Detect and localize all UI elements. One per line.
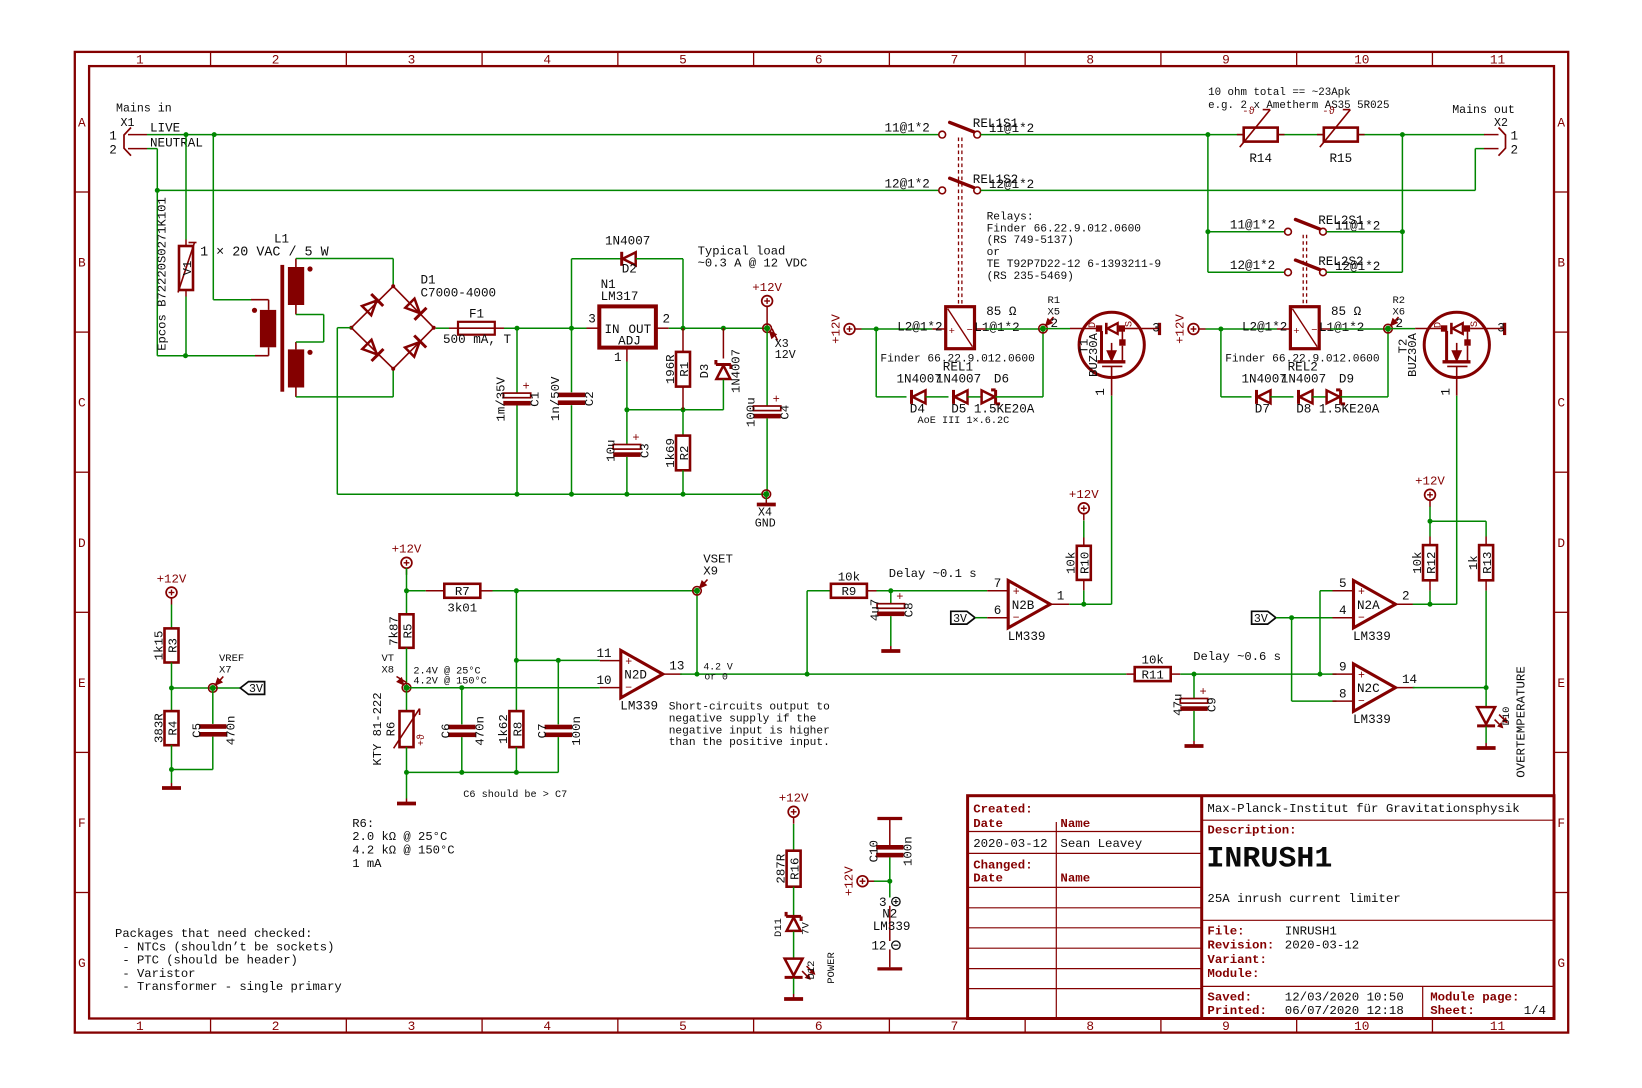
label 12@1*2 REL2 right <box>1335 260 1380 274</box>
svg-text:X1: X1 <box>121 117 135 130</box>
svg-text:-ϑ: -ϑ <box>1322 106 1335 118</box>
wire 3V to N2B <box>975 617 987 619</box>
svg-text:4: 4 <box>543 53 551 68</box>
svg-text:Variant:: Variant: <box>1207 953 1267 967</box>
title block <box>968 796 1554 1019</box>
wire VREF row <box>172 687 241 689</box>
label REL1S2 <box>973 173 1018 187</box>
svg-text:6: 6 <box>815 53 823 68</box>
svg-text:R15: R15 <box>1329 152 1352 166</box>
svg-text:G: G <box>1557 956 1565 971</box>
svg-text:D7: D7 <box>1255 403 1270 417</box>
note relays part numbers <box>987 211 1162 283</box>
svg-text:Epcos B72220S0271K101: Epcos B72220S0271K101 <box>156 197 170 351</box>
junction C9 top <box>1192 672 1197 677</box>
resistor R5 <box>387 614 415 687</box>
svg-text:D12: D12 <box>806 961 818 980</box>
note R6 characteristics <box>352 817 454 871</box>
op-amp N2D <box>597 647 685 714</box>
svg-text:R10: R10 <box>1079 552 1093 574</box>
note delay 0.1s <box>889 567 977 581</box>
svg-text:+ϑ: +ϑ <box>416 734 428 746</box>
svg-text:+12V: +12V <box>392 543 422 557</box>
wire LIVE rail <box>147 134 939 136</box>
svg-text:470n: 470n <box>224 716 238 746</box>
transistor T2 BUZ30A <box>1397 312 1505 395</box>
svg-text:R6:: R6: <box>352 817 374 831</box>
svg-text:3: 3 <box>408 53 416 68</box>
resistor R3 <box>152 605 180 689</box>
svg-text:ADJ: ADJ <box>618 334 641 348</box>
label OVERTEMPERATURE <box>1515 666 1529 778</box>
power +12V R12 <box>1415 475 1445 507</box>
wire 12@1*2 row <box>157 189 938 191</box>
svg-text:D9: D9 <box>1339 373 1354 387</box>
svg-text:e.g. 2 x Ametherm AS35 5R025: e.g. 2 x Ametherm AS35 5R025 <box>1208 100 1389 112</box>
junction R12 top <box>1428 519 1433 524</box>
relay coil REL2 <box>1277 307 1330 349</box>
svg-text:4: 4 <box>1339 604 1347 618</box>
junction N2A feed <box>1318 672 1323 677</box>
svg-text:1/4: 1/4 <box>1524 1004 1546 1018</box>
wire N2B output <box>1069 603 1111 605</box>
capacitor C6 <box>439 688 487 773</box>
svg-text:R5: R5 <box>401 624 415 639</box>
power +12V REL1 <box>829 314 861 344</box>
svg-text:3V: 3V <box>953 613 967 626</box>
svg-text:10: 10 <box>597 674 612 688</box>
wire R11 to N2C <box>1180 673 1336 675</box>
junction C1 <box>515 326 520 331</box>
svg-text:+: + <box>896 590 903 604</box>
switch REL1S2 <box>939 178 981 194</box>
power +12V N2 <box>842 866 874 896</box>
svg-text:OVERTEMPERATURE: OVERTEMPERATURE <box>1515 666 1529 778</box>
svg-text:LM339: LM339 <box>1353 630 1391 644</box>
svg-text:LM339: LM339 <box>873 920 911 934</box>
relay coil REL1 <box>932 307 985 349</box>
wire diode row up <box>1042 329 1044 397</box>
node X8 VT <box>382 653 411 692</box>
ground R4 <box>162 770 181 789</box>
capacitor C1 <box>495 328 543 494</box>
svg-text:E: E <box>78 676 86 691</box>
wire +12V to coil <box>862 328 933 330</box>
svg-text:+: + <box>1358 669 1365 682</box>
junction R7 left <box>404 588 409 593</box>
label temp coefficients <box>413 665 486 687</box>
svg-text:Packages that need checked:: Packages that need checked: <box>115 927 312 941</box>
label NEUTRAL <box>150 136 203 150</box>
svg-text:11: 11 <box>1490 53 1506 68</box>
wire 3V to N2C <box>1292 618 1337 701</box>
svg-text:1m/35V: 1m/35V <box>495 376 509 421</box>
capacitor C5 <box>172 688 239 770</box>
svg-text:8: 8 <box>1339 687 1347 701</box>
junction REL2S1 left <box>1205 229 1210 234</box>
svg-text:1: 1 <box>109 129 117 143</box>
label LIVE <box>150 122 180 136</box>
svg-text:LIVE: LIVE <box>150 122 180 136</box>
svg-text:10 ohm total == ~23Apk: 10 ohm total == ~23Apk <box>1208 87 1351 99</box>
labels diodes REL2 <box>1242 373 1380 417</box>
svg-text:D5 1.5KE20A: D5 1.5KE20A <box>951 403 1035 417</box>
resistor R13 <box>1467 545 1495 688</box>
svg-text:+: + <box>632 431 639 445</box>
svg-text:F: F <box>1557 816 1565 831</box>
svg-text:Sheet:: Sheet: <box>1430 1004 1475 1018</box>
svg-text:1: 1 <box>1057 590 1065 604</box>
svg-text:14: 14 <box>1402 673 1417 687</box>
svg-text:D: D <box>1557 536 1565 551</box>
op-amp N2A <box>1333 577 1415 644</box>
svg-text:10k: 10k <box>1142 654 1164 668</box>
svg-text:Mains out: Mains out <box>1452 104 1515 117</box>
svg-text:E: E <box>1557 676 1565 691</box>
junction REL2 right top <box>1400 132 1405 137</box>
junction rail C2 <box>569 492 574 497</box>
resistor R11 <box>1126 654 1180 683</box>
svg-text:R2: R2 <box>1393 295 1406 307</box>
svg-text:N2D: N2D <box>624 669 647 683</box>
svg-text:287R: 287R <box>774 853 788 883</box>
svg-text:VREF: VREF <box>219 653 244 665</box>
svg-text:D: D <box>1432 322 1444 328</box>
svg-text:7: 7 <box>994 577 1002 591</box>
svg-text:R13: R13 <box>1481 552 1495 574</box>
svg-text:Printed:: Printed: <box>1207 1004 1267 1018</box>
junction rail R2 <box>681 492 686 497</box>
label L2@1*2 REL1 <box>897 321 942 335</box>
svg-text:C: C <box>78 396 86 411</box>
wire secondary bottom <box>296 369 393 397</box>
capacitor C7 <box>536 660 584 772</box>
svg-text:500 mA, T: 500 mA, T <box>443 333 511 347</box>
wire +12V to coil REL2 <box>1206 328 1278 330</box>
note typical load <box>698 245 808 271</box>
svg-text:470n: 470n <box>473 716 487 746</box>
thermistor R6 <box>371 688 428 773</box>
svg-text:Date: Date <box>973 872 1003 886</box>
label Finder REL2 <box>1225 353 1380 365</box>
wire 4.2V to R11 <box>807 673 1126 675</box>
svg-text:G: G <box>78 956 86 971</box>
svg-text:10k: 10k <box>838 570 860 584</box>
svg-text:- PTC (should be header): - PTC (should be header) <box>115 954 298 968</box>
wire X6 to gate <box>1391 328 1415 330</box>
note packages checklist <box>115 927 342 994</box>
svg-text:A: A <box>1557 115 1565 130</box>
wire bridge left down <box>337 328 351 495</box>
labels diodes REL1 <box>897 373 1035 428</box>
svg-text:F1: F1 <box>469 308 484 322</box>
junction D3 top <box>721 326 726 331</box>
svg-text:(RS 235-5469): (RS 235-5469) <box>987 271 1074 283</box>
svg-text:2: 2 <box>272 53 280 68</box>
diode D4 <box>912 390 949 404</box>
wire X5 to gate <box>1046 328 1070 330</box>
svg-text:4.2 kΩ @ 150°C: 4.2 kΩ @ 150°C <box>352 844 454 858</box>
resistor R4 <box>152 688 180 770</box>
svg-text:+: + <box>773 393 780 407</box>
wire REL2S2 left <box>1208 271 1285 273</box>
svg-text:11@1*2: 11@1*2 <box>1230 218 1275 232</box>
capacitor C10 with terminal <box>867 819 915 882</box>
svg-text:R14: R14 <box>1249 152 1272 166</box>
svg-text:C7000-4000: C7000-4000 <box>421 287 497 301</box>
junction C2/D2 <box>569 326 574 331</box>
connector X2 Mains out <box>1452 104 1518 157</box>
ground C9 <box>1185 741 1204 747</box>
thermistor R15 <box>1317 106 1365 166</box>
capacitor C4 <box>745 328 793 494</box>
svg-text:3k01: 3k01 <box>447 601 477 615</box>
wire NEUTRAL <box>147 149 157 356</box>
tvs diode D9 <box>1327 390 1388 404</box>
svg-text:+12V: +12V <box>157 572 187 586</box>
svg-text:Saved:: Saved: <box>1207 990 1252 1004</box>
led D12 <box>785 952 838 994</box>
label L1@1*2 REL1 <box>974 321 1019 335</box>
wire REL2S1 right <box>1326 231 1402 233</box>
node X5 <box>1039 295 1060 333</box>
wire X3 node <box>766 313 768 328</box>
svg-text:3V: 3V <box>249 683 263 696</box>
svg-text:1: 1 <box>1094 388 1108 396</box>
svg-text:C8: C8 <box>902 602 916 617</box>
svg-text:1k: 1k <box>1467 555 1481 570</box>
label REL2S2 <box>1318 255 1363 269</box>
power +12V REL2 <box>1173 314 1205 344</box>
svg-text:File:: File: <box>1207 925 1244 939</box>
svg-text:1: 1 <box>614 351 622 365</box>
ground D12 <box>784 994 803 1000</box>
svg-text:−: − <box>1311 325 1317 337</box>
svg-text:10k: 10k <box>1065 552 1079 574</box>
svg-text:C6: C6 <box>439 723 453 738</box>
svg-text:1N4007: 1N4007 <box>730 349 744 393</box>
wire X8 row <box>407 687 600 689</box>
svg-text:S: S <box>1124 321 1136 327</box>
wire REL2 diode branch <box>1221 329 1252 397</box>
svg-text:R8: R8 <box>511 722 525 737</box>
svg-text:C: C <box>1557 396 1565 411</box>
svg-text:N2C: N2C <box>1357 682 1380 696</box>
junction VSET output <box>695 672 700 677</box>
diode D5 <box>954 390 982 404</box>
svg-text:X7: X7 <box>219 665 232 677</box>
svg-text:2.0 kΩ @ 25°C: 2.0 kΩ @ 25°C <box>352 830 447 844</box>
svg-text:F: F <box>78 816 86 831</box>
svg-text:D: D <box>78 536 86 551</box>
svg-text:2: 2 <box>1402 590 1410 604</box>
svg-text:7V: 7V <box>801 922 813 935</box>
svg-text:3: 3 <box>1152 321 1160 335</box>
transistor T1 BUZ30A <box>1070 312 1160 395</box>
svg-text:12@1*2: 12@1*2 <box>885 177 930 191</box>
diode D2 <box>572 235 684 329</box>
svg-text:Module page:: Module page: <box>1430 990 1519 1004</box>
diode D7 <box>1257 390 1294 404</box>
junction C7 top <box>556 658 561 663</box>
svg-text:BUZ30A: BUZ30A <box>1087 332 1101 377</box>
junction rail R8 <box>514 770 519 775</box>
svg-text:+12V: +12V <box>842 866 856 896</box>
svg-text:N2B: N2B <box>1012 599 1035 613</box>
global label 3V at N2A <box>1252 611 1276 626</box>
svg-text:12: 12 <box>871 940 886 954</box>
junction R9 takeoff <box>805 672 810 677</box>
svg-text:−: − <box>1358 612 1365 625</box>
svg-text:5: 5 <box>679 1019 687 1034</box>
wire N2D plus feed <box>516 659 599 661</box>
resistor R10 <box>1065 521 1093 605</box>
wire ground rail <box>337 493 766 495</box>
svg-text:Description:: Description: <box>1207 823 1296 837</box>
svg-text:negative supply if the: negative supply if the <box>669 713 817 725</box>
junction R1 top <box>681 326 686 331</box>
wire REL1S2 out <box>981 189 1476 191</box>
svg-text:11: 11 <box>1490 1019 1506 1034</box>
svg-text:06/07/2020 12:18: 06/07/2020 12:18 <box>1285 1004 1404 1018</box>
label Finder REL1 <box>880 353 1035 365</box>
svg-text:−: − <box>1358 695 1365 708</box>
svg-text:8: 8 <box>1086 53 1094 68</box>
svg-text:NEUTRAL: NEUTRAL <box>150 136 203 150</box>
svg-text:1: 1 <box>1439 388 1453 396</box>
junction REL2 left top <box>1205 132 1210 137</box>
svg-text:or 0: or 0 <box>704 672 728 683</box>
svg-text:Changed:: Changed: <box>973 858 1032 872</box>
svg-text:3: 3 <box>588 313 596 327</box>
svg-text:C4: C4 <box>779 405 793 420</box>
svg-text:+: + <box>1013 586 1020 599</box>
svg-text:X2: X2 <box>1494 117 1508 130</box>
svg-text:B: B <box>1557 256 1565 271</box>
connector X1 Mains in <box>109 103 171 158</box>
ground D10 <box>1477 743 1496 749</box>
label 11@1*2 left <box>885 121 930 135</box>
svg-text:B: B <box>78 256 86 271</box>
svg-text:196R: 196R <box>664 354 678 384</box>
svg-text:7k87: 7k87 <box>387 616 401 646</box>
switch REL1S1 <box>939 122 981 138</box>
svg-text:1n/50V: 1n/50V <box>549 376 563 421</box>
wire secondary centertap jog <box>296 315 324 343</box>
junction rail C3 <box>624 492 629 497</box>
svg-text:LM317: LM317 <box>601 290 639 304</box>
svg-text:2: 2 <box>1511 143 1519 157</box>
power +12V R3 <box>157 572 187 604</box>
svg-text:+12V: +12V <box>752 281 782 295</box>
svg-text:Name: Name <box>1060 817 1090 831</box>
svg-text:INRUSH1: INRUSH1 <box>1285 925 1337 939</box>
svg-text:Mains in: Mains in <box>116 103 172 116</box>
note NTC rating <box>1208 87 1389 112</box>
note C6 vs C7 <box>463 789 567 801</box>
junction R7/R8 branch <box>514 588 519 593</box>
junction R8 mid <box>514 658 519 663</box>
svg-text:1N4007: 1N4007 <box>936 373 981 387</box>
wire primary bottom <box>157 355 255 357</box>
resistor R1 <box>664 328 692 410</box>
wire fuse to regulator <box>504 327 587 329</box>
svg-text:Sean Leavey: Sean Leavey <box>1060 837 1142 851</box>
svg-text:C6 should be > C7: C6 should be > C7 <box>463 789 567 801</box>
junction C6 top <box>459 685 464 690</box>
svg-text:383R: 383R <box>152 713 166 743</box>
wire R9 to N2B <box>877 590 988 592</box>
label 12@1*2 left <box>885 177 930 191</box>
note delay 0.6s <box>1193 650 1281 664</box>
svg-text:+: + <box>949 326 955 338</box>
svg-text:5: 5 <box>679 53 687 68</box>
label REL2S1 <box>1318 214 1363 228</box>
svg-text:D: D <box>1087 322 1099 328</box>
svg-text:+: + <box>1200 685 1207 699</box>
svg-text:1N4007: 1N4007 <box>1281 373 1326 387</box>
svg-text:or: or <box>987 247 1000 259</box>
junction NEUTRAL branch <box>155 188 160 193</box>
svg-text:Finder 66.22.9.012.0600: Finder 66.22.9.012.0600 <box>987 223 1142 235</box>
switch REL2S1 <box>1285 220 1327 236</box>
svg-text:R7: R7 <box>455 585 470 599</box>
svg-text:Module:: Module: <box>1207 967 1259 981</box>
svg-text:D3: D3 <box>698 364 712 379</box>
svg-text:X9: X9 <box>703 565 718 579</box>
bridge rectifier D1 <box>349 274 496 371</box>
varistor V1 <box>156 135 197 356</box>
svg-text:KTY 81-222: KTY 81-222 <box>371 692 385 765</box>
transformer L1 <box>200 233 330 397</box>
resistor R7 <box>407 584 698 616</box>
wire 3V to N2A <box>1276 617 1337 619</box>
svg-text:+12V: +12V <box>779 792 809 806</box>
svg-text:+12V: +12V <box>1069 488 1099 502</box>
svg-text:2: 2 <box>663 313 671 327</box>
wire bridge right to fuse <box>436 327 449 329</box>
power +12V R10 <box>1069 488 1099 520</box>
switch REL2S2 <box>1285 260 1327 276</box>
svg-text:−: − <box>1013 612 1020 625</box>
svg-text:C5: C5 <box>190 723 204 738</box>
svg-text:D11: D11 <box>773 918 785 937</box>
svg-text:D4: D4 <box>910 403 925 417</box>
svg-text:11@1*2: 11@1*2 <box>885 121 930 135</box>
junction rail R6 <box>404 770 409 775</box>
svg-text:D8 1.5KE20A: D8 1.5KE20A <box>1296 403 1380 417</box>
junction L1 primary top <box>212 132 217 137</box>
ic N2 LM339 power pins <box>871 881 910 969</box>
svg-text:10k: 10k <box>1411 552 1425 574</box>
node X6 <box>1384 295 1405 333</box>
ground C8 <box>881 646 900 652</box>
resistor R12 <box>1411 545 1439 604</box>
svg-text:4.2V @ 150°C: 4.2V @ 150°C <box>413 676 486 688</box>
capacitor C3 <box>605 410 653 494</box>
svg-text:7: 7 <box>951 1019 959 1034</box>
svg-text:TE T92P7D22-12 6-1393211-9: TE T92P7D22-12 6-1393211-9 <box>987 259 1162 271</box>
capacitor C8 <box>868 590 916 645</box>
svg-text:100n: 100n <box>570 716 584 746</box>
svg-text:Name: Name <box>1060 872 1090 886</box>
svg-text:9: 9 <box>1222 1019 1230 1034</box>
svg-text:3: 3 <box>408 1019 416 1034</box>
svg-text:Date: Date <box>973 817 1003 831</box>
wire T1 source down <box>1111 396 1113 605</box>
svg-text:−: − <box>625 682 632 695</box>
svg-text:N2A: N2A <box>1357 599 1380 613</box>
